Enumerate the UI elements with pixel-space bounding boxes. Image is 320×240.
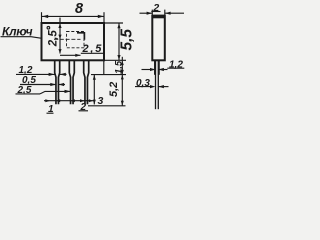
svg-text:0,3: 0,3 — [136, 78, 150, 89]
svg-text:5,2: 5,2 — [108, 82, 120, 97]
svg-text:2: 2 — [152, 2, 159, 14]
svg-text:2,5: 2,5 — [17, 85, 32, 96]
svg-text:2,5: 2,5 — [48, 30, 60, 48]
svg-text:2: 2 — [80, 102, 87, 113]
svg-text:8: 8 — [75, 1, 84, 17]
svg-text:Ключ: Ключ — [2, 24, 33, 38]
svg-text:5,5: 5,5 — [118, 29, 135, 51]
svg-text:1,5: 1,5 — [114, 60, 125, 74]
svg-text:1,2: 1,2 — [169, 59, 183, 70]
svg-text:1: 1 — [48, 104, 54, 115]
svg-text:2,5: 2,5 — [82, 43, 104, 55]
svg-text:3: 3 — [98, 95, 104, 107]
